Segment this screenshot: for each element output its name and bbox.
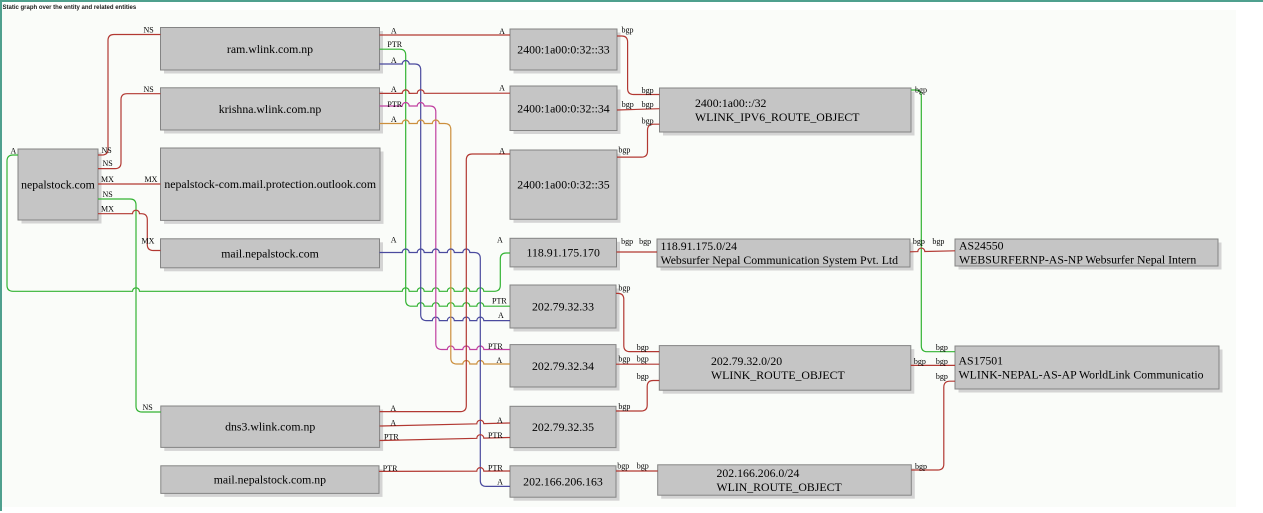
node mail.nepalstock.com — [161, 239, 384, 271]
svg-text:bgp: bgp — [617, 462, 629, 471]
edge dns3.wlink.com.np A 2400:1a00:0:32::35 — [380, 154, 510, 412]
node nepalstock.com — [18, 149, 102, 224]
svg-text:202.79.32.34: 202.79.32.34 — [532, 359, 594, 373]
edge WLIN_ROUTE_OBJECT bgp AS17501 — [911, 381, 955, 470]
node 202.166.206.163 — [510, 466, 620, 501]
node AS17501 WLINK-NEPAL-AS-AP — [955, 346, 1223, 393]
edge nepalstock.com MX nepalstock-com.mail.protection.outlook.com — [98, 183, 161, 185]
svg-text:PTR: PTR — [387, 100, 402, 109]
svg-text:bgp: bgp — [618, 284, 630, 293]
node 202.79.32.33 — [510, 285, 620, 332]
edge 202.79.32.35 bgp WLINK_ROUTE_OBJECT — [616, 381, 659, 412]
svg-text:bgp: bgp — [936, 372, 948, 381]
svg-text:MX: MX — [101, 205, 114, 214]
svg-text:118.91.175.170: 118.91.175.170 — [527, 246, 600, 260]
svg-text:bgp: bgp — [618, 354, 630, 363]
svg-text:202.79.32.0/20: 202.79.32.0/20 — [711, 354, 782, 368]
svg-text:202.79.32.35: 202.79.32.35 — [532, 420, 594, 434]
svg-text:PTR: PTR — [384, 433, 399, 442]
edge mail.nepalstock.com.np PTR 202.166.206.163 — [379, 468, 510, 472]
node 202.79.32.0/20 WLINK_ROUTE_OBJECT — [659, 346, 914, 394]
svg-text:bgp: bgp — [642, 117, 654, 126]
svg-text:NS: NS — [103, 159, 113, 168]
svg-text:dns3.wlink.com.np: dns3.wlink.com.np — [225, 420, 315, 434]
svg-text:bgp: bgp — [913, 237, 925, 246]
svg-text:A: A — [496, 356, 502, 365]
edge 202.79.32.34 bgp WLINK_ROUTE_OBJECT — [616, 363, 659, 365]
svg-text:Websurfer Nepal Communication: Websurfer Nepal Communication System Pvt… — [661, 253, 899, 267]
edge nepalstock.com A 118.91.175.170 — [7, 155, 510, 291]
svg-text:PTR: PTR — [488, 431, 503, 440]
svg-text:WLINK_IPV6_ROUTE_OBJECT: WLINK_IPV6_ROUTE_OBJECT — [695, 110, 860, 124]
svg-text:A: A — [391, 115, 397, 124]
svg-text:A: A — [499, 27, 505, 36]
node 2400:1a00:0:32::35 — [510, 150, 621, 223]
svg-text:A: A — [497, 478, 503, 487]
edge WLINK_ROUTE_OBJECT bgp AS17501 — [911, 364, 955, 366]
node 202.79.32.34 — [510, 345, 620, 391]
edge 2400:1a00:0:32::35 bgp WLINK_IPV6_ROUTE_OBJECT — [617, 124, 660, 157]
node 2400:1a00:0:32::34 — [510, 86, 621, 134]
node ram.wlink.com.np — [161, 28, 384, 74]
node 2400:1a00:0:32::33 — [510, 29, 621, 74]
edge labels — [11, 25, 948, 486]
svg-text:bgp: bgp — [915, 462, 927, 471]
node AS24550 WEBSURFERNP-AS-NP — [955, 238, 1222, 269]
svg-text:A: A — [497, 236, 503, 245]
edge 2400:1a00:0:32::34 bgp WLINK_IPV6_ROUTE_OBJECT — [617, 109, 660, 110]
svg-text:WLIN_ROUTE_OBJECT: WLIN_ROUTE_OBJECT — [717, 480, 843, 494]
node 202.79.32.35 — [510, 406, 620, 451]
svg-text:A: A — [11, 146, 17, 155]
svg-text:118.91.175.0/24: 118.91.175.0/24 — [661, 239, 738, 253]
svg-text:WLINK_ROUTE_OBJECT: WLINK_ROUTE_OBJECT — [711, 368, 845, 382]
svg-text:AS17501: AS17501 — [959, 353, 1004, 367]
svg-text:bgp: bgp — [637, 343, 649, 352]
svg-text:PTR: PTR — [488, 342, 503, 351]
edge nepalstock.com NS krishna.wlink.com.np — [98, 94, 161, 169]
svg-text:MX: MX — [142, 236, 155, 245]
svg-text:NS: NS — [144, 85, 154, 94]
node 118.91.175.170 — [510, 238, 620, 270]
svg-text:MX: MX — [145, 175, 158, 184]
svg-text:NS: NS — [143, 403, 153, 412]
node dns3.wlink.com.np — [161, 406, 383, 451]
svg-text:A: A — [391, 235, 397, 244]
edge dns3.wlink.com.np A 202.79.32.35 — [380, 420, 510, 426]
svg-text:bgp: bgp — [936, 357, 948, 366]
node 202.166.206.0/24 WLIN_ROUTE_OBJECT — [658, 465, 915, 499]
svg-text:bgp: bgp — [642, 86, 654, 95]
svg-text:PTR: PTR — [488, 463, 503, 472]
svg-text:nepalstock.com: nepalstock.com — [21, 178, 95, 192]
svg-text:WLINK-NEPAL-AS-AP WorldLink Co: WLINK-NEPAL-AS-AP WorldLink Communicatio — [959, 368, 1204, 382]
svg-text:bgp: bgp — [618, 402, 630, 411]
edge 202.166.206.163 bgp WLIN_ROUTE_OBJECT — [616, 470, 658, 472]
svg-text:mail.nepalstock.com: mail.nepalstock.com — [221, 246, 319, 260]
svg-text:PTR: PTR — [492, 296, 507, 305]
svg-text:NS: NS — [103, 190, 113, 199]
edge 118.91.175.170 bgp 118.91.175.0/24 — [617, 251, 658, 253]
svg-text:MX: MX — [101, 175, 114, 184]
svg-text:NS: NS — [144, 25, 154, 34]
node krishna.wlink.com.np — [161, 88, 384, 134]
svg-text:bgp: bgp — [932, 237, 944, 246]
svg-text:A: A — [498, 311, 504, 320]
svg-text:A: A — [390, 404, 396, 413]
svg-text:bgp: bgp — [642, 100, 654, 109]
svg-text:bgp: bgp — [914, 357, 926, 366]
svg-text:A: A — [390, 418, 396, 427]
edge krishna.wlink.com.np PTR 202.79.32.34 — [380, 103, 511, 350]
svg-text:bgp: bgp — [637, 372, 649, 381]
svg-text:krishna.wlink.com.np: krishna.wlink.com.np — [219, 102, 322, 116]
edge WLINK_IPV6_ROUTE_OBJECT bgp AS17501 — [911, 90, 955, 352]
edge ram.wlink.com.np PTR 202.79.32.33 — [380, 49, 511, 306]
edge 2400:1a00:0:32::33 bgp WLINK_IPV6_ROUTE_OBJECT — [617, 36, 660, 95]
edge 118.91.175.0/24 bgp AS24550 — [910, 248, 955, 252]
svg-text:bgp: bgp — [621, 237, 633, 246]
svg-text:2400:1a00:0:32::33: 2400:1a00:0:32::33 — [517, 43, 610, 57]
edge 202.79.32.33 bgp WLINK_ROUTE_OBJECT — [616, 293, 659, 351]
edge krishna.wlink.com.np A 2400:1a00:0:32::34 — [380, 90, 511, 94]
edge ram.wlink.com.np A 2400:1a00:0:32::33 — [380, 34, 511, 36]
svg-text:A: A — [497, 416, 503, 425]
edge dns3.wlink.com.np PTR 202.79.32.35 — [380, 435, 510, 441]
svg-text:2400:1a00::/32: 2400:1a00::/32 — [695, 96, 767, 110]
svg-text:A: A — [499, 147, 505, 156]
svg-text:A: A — [391, 56, 397, 65]
svg-text:ram.wlink.com.np: ram.wlink.com.np — [227, 42, 313, 56]
svg-text:bgp: bgp — [915, 86, 927, 95]
edge mail.nepalstock.com A 202.166.206.163 — [380, 249, 511, 486]
edge ram.wlink.com.np A 202.79.32.33 — [380, 61, 511, 321]
svg-text:202.166.206.163: 202.166.206.163 — [523, 475, 603, 489]
svg-text:bgp: bgp — [622, 100, 634, 109]
svg-text:2400:1a00:0:32::35: 2400:1a00:0:32::35 — [517, 178, 610, 192]
svg-text:bgp: bgp — [618, 146, 630, 155]
svg-text:A: A — [391, 85, 397, 94]
node mail.nepalstock.com.np — [161, 466, 383, 497]
edge nepalstock.com NS dns3.wlink.com.np — [98, 199, 161, 412]
svg-text:bgp: bgp — [637, 354, 649, 363]
svg-text:bgp: bgp — [936, 343, 948, 352]
svg-text:WEBSURFERNP-AS-NP Websurfer Ne: WEBSURFERNP-AS-NP Websurfer Nepal Intern — [959, 253, 1196, 267]
edge nepalstock.com NS ram.wlink.com.np — [98, 35, 161, 156]
node 118.91.175.0/24 Websurfer Nepal Communication System Pvt. Ltd — [657, 239, 914, 271]
svg-text:mail.nepalstock.com.np: mail.nepalstock.com.np — [214, 473, 326, 487]
node 2400:1a00::/32 WLINK_IPV6_ROUTE_OBJECT — [660, 88, 915, 136]
svg-text:nepalstock-com.mail.protection: nepalstock-com.mail.protection.outlook.c… — [164, 177, 376, 191]
svg-text:PTR: PTR — [387, 40, 402, 49]
svg-text:A: A — [499, 83, 505, 92]
svg-text:A: A — [391, 26, 397, 35]
node nepalstock-com.mail.protection.outlook.com — [161, 148, 384, 224]
svg-text:202.166.206.0/24: 202.166.206.0/24 — [717, 466, 800, 480]
svg-text:Static graph over the entity a: Static graph over the entity and related… — [3, 5, 137, 11]
svg-text:PTR: PTR — [383, 464, 398, 473]
svg-text:bgp: bgp — [622, 25, 634, 34]
svg-text:NS: NS — [102, 146, 112, 155]
edge krishna.wlink.com.np A 202.79.32.34 — [380, 120, 511, 364]
edge nepalstock.com MX mail.nepalstock.com — [98, 210, 161, 250]
svg-text:2400:1a00:0:32::34: 2400:1a00:0:32::34 — [517, 101, 610, 115]
svg-text:AS24550: AS24550 — [959, 238, 1004, 252]
svg-text:bgp: bgp — [639, 237, 651, 246]
svg-text:bgp: bgp — [637, 462, 649, 471]
svg-text:202.79.32.33: 202.79.32.33 — [532, 300, 594, 314]
